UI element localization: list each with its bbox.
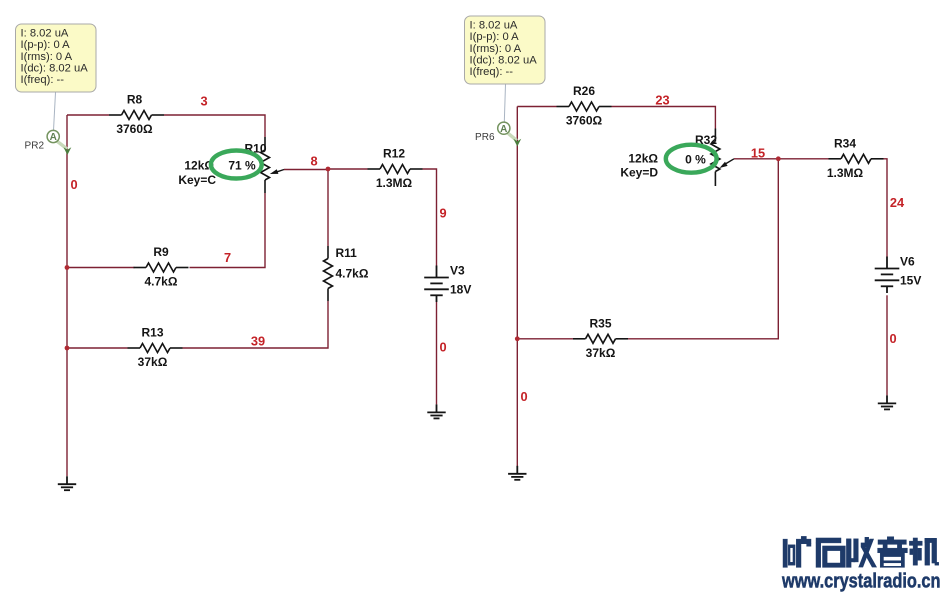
svg-text:3: 3: [200, 94, 207, 109]
svg-text:PR6: PR6: [475, 132, 495, 143]
svg-text:3760Ω: 3760Ω: [116, 122, 153, 136]
svg-text:71 %: 71 %: [228, 159, 256, 173]
watermark logo text: [783, 536, 939, 567]
svg-text:1.3MΩ: 1.3MΩ: [376, 176, 413, 190]
battery V3 18V: [424, 266, 449, 303]
wire wiper net 15: [734, 158, 778, 160]
junction left-R13: [65, 346, 70, 351]
PR6 leader line: [504, 85, 505, 123]
wire top net 3 right: [164, 115, 265, 137]
svg-text:R34: R34: [834, 136, 856, 150]
svg-text:I: 8.02 uA: I: 8.02 uA: [21, 28, 69, 40]
wire top net 3 left: [67, 114, 109, 116]
svg-text:I(dc): 8.02 uA: I(dc): 8.02 uA: [21, 62, 89, 74]
svg-text:R8: R8: [127, 93, 143, 107]
svg-text:15V: 15V: [900, 273, 921, 287]
svg-text:1.3MΩ: 1.3MΩ: [827, 166, 864, 180]
svg-text:I(rms): 0 A: I(rms): 0 A: [470, 43, 522, 55]
resistor R11 4.7k: [327, 246, 329, 259]
svg-text:R13: R13: [141, 326, 163, 340]
PR2 probe: [57, 141, 67, 149]
svg-text:0: 0: [71, 177, 78, 192]
svg-text:I(freq): --: I(freq): --: [21, 74, 65, 86]
svg-text:R9: R9: [153, 245, 169, 259]
ground right circuit: [508, 466, 526, 480]
svg-text:37kΩ: 37kΩ: [138, 355, 168, 369]
svg-text:www.crystalradio.cn: www.crystalradio.cn: [781, 570, 940, 592]
wire net 15 down to R35: [628, 159, 778, 339]
wire net 8 to R12: [328, 168, 368, 170]
svg-text:0: 0: [890, 331, 897, 346]
resistor R12 1.3M&#937;: [368, 165, 423, 174]
PR2 readout box: [16, 24, 97, 92]
svg-text:V6: V6: [900, 255, 915, 269]
PR2 leader line: [54, 93, 56, 131]
PR6 probe: [507, 133, 517, 141]
svg-text:Key=C: Key=C: [178, 173, 216, 187]
junction right-R35: [515, 336, 520, 341]
svg-text:0 %: 0 %: [685, 153, 706, 167]
R10 setting ellipse: [211, 151, 262, 179]
svg-text:23: 23: [655, 93, 669, 108]
resistor R8 3760&#937;: [109, 111, 164, 120]
wire V3 to ground net 0: [436, 302, 438, 404]
svg-text:37kΩ: 37kΩ: [586, 346, 616, 360]
svg-text:18V: 18V: [450, 282, 471, 296]
resistor R35 37k&#937;: [573, 334, 628, 343]
junction node 15: [776, 156, 781, 161]
svg-text:Key=D: Key=D: [620, 165, 658, 179]
resistor R26 3760&#937;: [557, 102, 612, 111]
resistor R9 4.7k&#937;: [134, 263, 189, 272]
resistor R13 37k&#937;: [128, 344, 183, 353]
svg-text:4.7kΩ: 4.7kΩ: [145, 275, 178, 289]
svg-text:V3: V3: [450, 264, 465, 278]
svg-text:I(p-p): 0 A: I(p-p): 0 A: [21, 39, 71, 51]
wire R9 left: [67, 267, 135, 269]
svg-text:8: 8: [310, 153, 317, 168]
svg-text:0: 0: [440, 340, 447, 355]
svg-text:I(p-p): 0 A: I(p-p): 0 A: [470, 31, 520, 43]
junction left-R9: [65, 265, 70, 270]
svg-text:9: 9: [440, 206, 447, 221]
junction node 8: [326, 167, 331, 172]
wire R35 left: [517, 338, 573, 340]
wire net 15 to R34: [778, 158, 828, 160]
potentiometer R32 12k: [714, 129, 716, 142]
svg-text:I(dc): 8.02 uA: I(dc): 8.02 uA: [470, 54, 538, 66]
wire V6 to ground: [886, 295, 888, 395]
ground below V3: [427, 404, 445, 418]
wire R34 to V6 net 24: [881, 159, 888, 257]
wire R12 to V3 net 9: [423, 169, 437, 266]
svg-text:I(freq): --: I(freq): --: [470, 66, 514, 78]
battery V6 15V: [875, 257, 900, 294]
wire R11 top: [327, 169, 329, 246]
potentiometer R10 12k: [264, 137, 266, 150]
svg-text:39: 39: [251, 334, 265, 349]
svg-text:4.7kΩ: 4.7kΩ: [336, 267, 369, 281]
resistor R34 1.3M: [829, 154, 884, 163]
wire right vertical net 0: [516, 107, 518, 467]
svg-text:0: 0: [521, 389, 528, 404]
svg-text:3760Ω: 3760Ω: [566, 114, 603, 128]
svg-text:A: A: [500, 124, 507, 135]
ground below V6: [878, 395, 896, 409]
wire R13 left: [67, 347, 128, 349]
wire top net 23 right: [612, 107, 716, 129]
svg-text:15: 15: [751, 146, 765, 161]
svg-text:12kΩ: 12kΩ: [628, 152, 658, 166]
svg-text:7: 7: [224, 250, 231, 265]
wire R11 bottom to R13: [183, 301, 329, 348]
wire pot bottom to R9: [190, 193, 266, 268]
R32 setting ellipse: [666, 145, 717, 173]
svg-text:R35: R35: [589, 316, 611, 330]
svg-text:R26: R26: [573, 84, 595, 98]
svg-text:R12: R12: [383, 147, 405, 161]
svg-text:I: 8.02 uA: I: 8.02 uA: [470, 20, 518, 32]
wire top net 23 left: [517, 106, 556, 108]
ground left circuit: [58, 476, 76, 490]
svg-text:A: A: [50, 132, 57, 143]
svg-text:24: 24: [890, 195, 905, 210]
PR6 readout box: [465, 16, 546, 84]
svg-text:I(rms): 0 A: I(rms): 0 A: [21, 51, 73, 63]
wire left vertical net 0: [66, 115, 68, 476]
svg-text:PR2: PR2: [25, 140, 45, 151]
svg-text:R11: R11: [336, 246, 358, 260]
wire wiper net 8: [284, 169, 328, 171]
